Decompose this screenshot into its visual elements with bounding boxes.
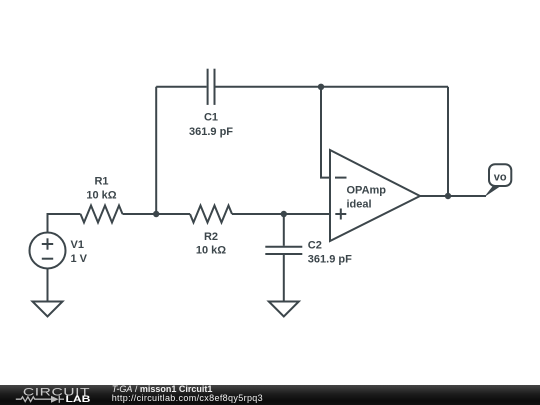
- op-amp plus pin mark: [335, 209, 346, 220]
- label R2 value: [196, 231, 226, 257]
- wire node B down to C2: [283, 214, 285, 246]
- label R1 value: [86, 176, 116, 202]
- node A junction dot: [153, 211, 159, 217]
- svg-text:1 V: 1 V: [71, 253, 88, 265]
- footer bar: [0, 385, 540, 405]
- svg-text:10 kΩ: 10 kΩ: [196, 245, 226, 257]
- wire V1 bottom to ground: [47, 269, 49, 302]
- svg-text:R1: R1: [94, 176, 108, 188]
- label C1 value: [189, 112, 233, 139]
- wire V1 top to R1: [48, 214, 81, 233]
- wire top rail left to C1: [156, 86, 206, 88]
- wire feedback node down to inverting input: [321, 87, 330, 178]
- ground under C2: [269, 302, 299, 317]
- svg-text:361.9 pF: 361.9 pF: [308, 254, 352, 266]
- output node junction dot: [445, 193, 451, 199]
- label C2 value: [308, 240, 352, 266]
- wire C1 to top-right corner: [216, 86, 449, 88]
- wire R1 to node A to R2: [123, 213, 191, 215]
- vo flag box: [489, 164, 511, 186]
- op-amp minus pin mark: [335, 177, 347, 179]
- vo flag tail: [484, 186, 501, 197]
- svg-text:V1: V1: [71, 239, 84, 251]
- label V1 value: [71, 239, 88, 265]
- svg-text:OPAmp: OPAmp: [347, 185, 387, 197]
- ground under V1: [33, 302, 63, 317]
- svg-text:ideal: ideal: [347, 199, 372, 211]
- wire right rail down to output: [447, 87, 449, 196]
- wire R2 to node B to op-amp plus input: [232, 213, 330, 215]
- svg-text:C1: C1: [204, 112, 218, 124]
- node B junction dot: [281, 211, 287, 217]
- svg-text:361.9 pF: 361.9 pF: [189, 126, 233, 138]
- svg-text:R2: R2: [204, 231, 218, 243]
- svg-text:vo: vo: [494, 172, 507, 184]
- footer text: [112, 385, 263, 403]
- op-amp U1 triangle: [330, 150, 420, 241]
- feedback node junction dot: [318, 84, 324, 90]
- svg-text:10 kΩ: 10 kΩ: [86, 190, 116, 202]
- capacitor C2: [265, 247, 302, 254]
- capacitor C1: [208, 69, 215, 105]
- wire C2 to ground: [283, 255, 285, 302]
- wire op-amp output: [420, 195, 486, 197]
- svg-text:C2: C2: [308, 240, 322, 252]
- svg-text:LAB: LAB: [65, 394, 90, 404]
- label op-amp type: [347, 185, 387, 211]
- resistor R1: [81, 206, 123, 223]
- resistor R2: [190, 206, 232, 223]
- wire node A up to top rail: [155, 87, 157, 214]
- CircuitLab logo: [0, 385, 100, 405]
- voltage source V1: [30, 233, 66, 269]
